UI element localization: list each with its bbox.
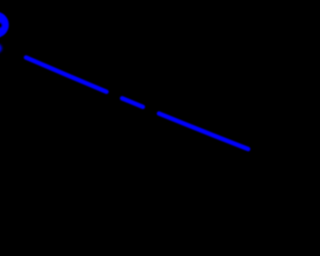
glow blob bbox=[0, 44, 2, 53]
ball (blue ring) bbox=[0, 12, 9, 38]
aim line (dashed) bbox=[26, 58, 248, 150]
